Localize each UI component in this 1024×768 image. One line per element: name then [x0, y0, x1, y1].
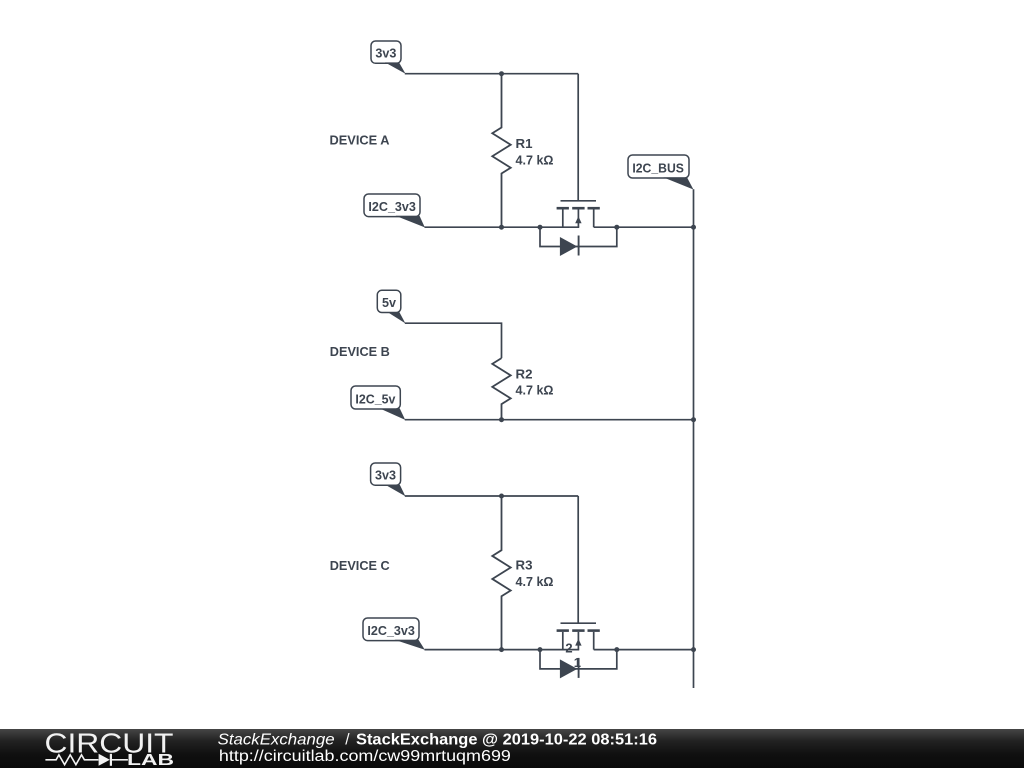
svg-text:StackExchange: StackExchange [218, 731, 335, 748]
resistor R1 [492, 74, 510, 228]
wire gate lead Q1 [577, 74, 579, 201]
svg-text:DEVICE C: DEVICE C [330, 558, 391, 573]
wire Q2 drain to I2C_BUS [594, 649, 694, 651]
junction node bus C [691, 647, 696, 652]
svg-text:R3: R3 [516, 557, 533, 572]
net flag I2C_BUS [628, 155, 693, 190]
svg-text:3v3: 3v3 [375, 46, 396, 61]
wire I2C_5v to I2C_BUS [405, 419, 694, 421]
svg-text:/: / [345, 731, 350, 748]
svg-text:3v3: 3v3 [375, 468, 396, 483]
svg-text:I2C_3v3: I2C_3v3 [368, 199, 416, 214]
junction node R3 top [499, 494, 504, 499]
net flag I2C_3v3 (Device A) [364, 194, 425, 227]
net flag 3v3 (Device A) [371, 41, 406, 74]
svg-text:StackExchange @ 2019-10-22 08:: StackExchange @ 2019-10-22 08:51:16 [356, 731, 657, 748]
label R1 4.7 kOhm [516, 136, 554, 167]
transistor Q1 (NMOS level shifter) [557, 201, 600, 227]
wire 3v3 rail Device C [405, 495, 578, 497]
svg-text:2: 2 [565, 641, 572, 656]
junction node R1 bottom [499, 225, 504, 230]
svg-text:I2C_3v3: I2C_3v3 [367, 623, 415, 638]
label R2 4.7 kOhm [516, 366, 554, 397]
CircuitLab logo diode [99, 754, 128, 766]
junction node R2 bottom [499, 417, 504, 422]
net flag I2C_5v (Device B) [351, 386, 405, 420]
svg-text:4.7 kΩ: 4.7 kΩ [516, 152, 554, 167]
body diode of Q1 [540, 227, 617, 256]
junction node bus A [691, 225, 696, 230]
svg-text:I2C_5v: I2C_5v [355, 391, 396, 406]
junction node diode anode [538, 225, 543, 230]
label R3 4.7 kOhm [516, 557, 554, 589]
net flag 5v (Device B) [377, 290, 405, 323]
svg-text:4.7 kΩ: 4.7 kΩ [516, 383, 554, 398]
CircuitLab logo resistor zigzag [45, 755, 98, 765]
junction node R3 bottom [499, 647, 504, 652]
svg-text:R1: R1 [516, 136, 533, 151]
svg-text:R2: R2 [516, 366, 533, 381]
body diode of Q2 [540, 650, 617, 679]
junction node R1 top [499, 71, 504, 76]
net flag 3v3 (Device C) [371, 463, 406, 496]
footer bar [0, 729, 1024, 768]
resistor R3 [492, 496, 510, 650]
transistor Q2 (NMOS level shifter) [557, 623, 600, 649]
wire Q1 drain to I2C_BUS [594, 226, 694, 228]
junction node diode anode C [538, 647, 543, 652]
wire 5v rail Device B [405, 323, 502, 358]
svg-text:1: 1 [574, 655, 581, 670]
resistor R2 [492, 358, 510, 420]
wire gate lead Q2 [577, 496, 579, 623]
junction node diode cathode [614, 225, 619, 230]
svg-text:DEVICE A: DEVICE A [330, 132, 391, 147]
svg-text:http://circuitlab.com/cw99mrtu: http://circuitlab.com/cw99mrtuqm699 [219, 748, 511, 765]
net flag I2C_3v3 (Device C) [363, 618, 425, 650]
junction node bus B [691, 417, 696, 422]
wire I2C_3v3 to Q2 source/body [425, 649, 580, 651]
svg-text:DEVICE B: DEVICE B [330, 344, 390, 359]
svg-text:I2C_BUS: I2C_BUS [632, 160, 684, 175]
wire I2C_3v3 to Q1 source/body [425, 226, 580, 228]
junction node diode cathode C [614, 647, 619, 652]
svg-text:LAB: LAB [127, 752, 174, 768]
wire 3v3 rail Device A [405, 73, 578, 75]
svg-text:4.7 kΩ: 4.7 kΩ [516, 574, 554, 589]
svg-text:5v: 5v [382, 295, 397, 310]
wire I2C_BUS vertical [693, 189, 695, 688]
